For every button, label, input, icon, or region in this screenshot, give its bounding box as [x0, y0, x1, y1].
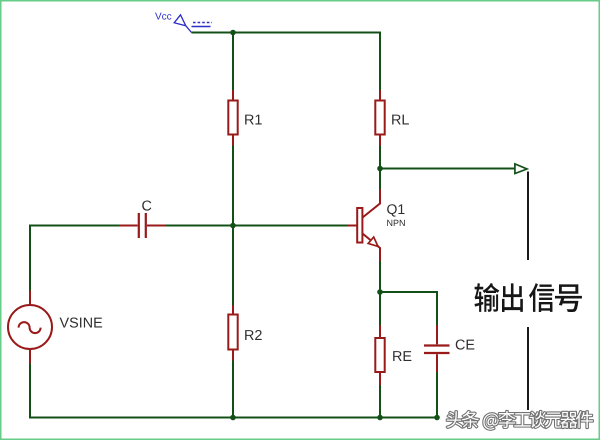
output open arrowhead [515, 164, 527, 174]
wire R2 to bottom rail [232, 361, 234, 418]
wire RL column upper [379, 32, 381, 91]
junction dot RE bottom [377, 415, 383, 421]
wire R1 to mid rail [232, 146, 234, 227]
resistor R2 [228, 305, 261, 361]
junction dot top rail R1 column [230, 30, 236, 36]
source VSINE [8, 291, 102, 364]
junction dot mid rail [230, 223, 236, 229]
wire RE to bottom rail [379, 385, 381, 418]
resistor RL [375, 90, 409, 146]
wire output [380, 168, 516, 170]
wire RL to collector node [379, 146, 381, 190]
wire input corner [30, 226, 119, 291]
wire R1 column upper [232, 32, 234, 91]
resistor R1 [228, 90, 261, 146]
wire VSINE to ground rail [29, 364, 31, 419]
junction dot CE bottom [434, 415, 440, 421]
wire emitter to node [379, 261, 381, 293]
label output-signal 输出信号 [474, 283, 581, 312]
capacitor C [119, 200, 166, 238]
wire bottom rail [29, 417, 437, 419]
resistor RE [375, 325, 411, 385]
wire mid rail cap to base [166, 225, 348, 227]
wire R2 column upper [232, 226, 234, 306]
wire RE column upper [379, 292, 381, 325]
wire CE column upper [436, 291, 438, 325]
junction dot R2 bottom [230, 415, 236, 421]
transistor Q1 [348, 189, 405, 261]
junction dot collector node [377, 166, 383, 172]
junction dot emitter node [377, 289, 383, 295]
wire emitter node to CE column [380, 291, 437, 293]
watermark 头条@李工谈元器件 [447, 411, 593, 430]
wire top rail [192, 32, 381, 34]
capacitor CE [424, 325, 474, 372]
annotation line upper segment [527, 172, 529, 261]
annotation line lower segment [527, 327, 529, 410]
wire CE to bottom rail [436, 372, 438, 419]
power symbol VCC [155, 13, 212, 33]
